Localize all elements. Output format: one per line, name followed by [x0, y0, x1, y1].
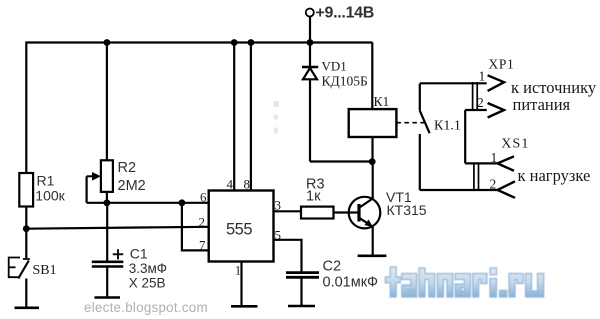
wire XP1 pin2 to XS1 pin1: [464, 110, 466, 163]
diode VD1: [302, 59, 368, 89]
transistor Q1 VT1: [349, 189, 427, 229]
switch contact K1.1: [420, 84, 461, 191]
wire pin6-pin7 link: [182, 203, 209, 251]
node supply junction: [307, 39, 314, 46]
wire relay top lead: [371, 43, 373, 110]
wire pin8: [250, 42, 252, 191]
wire pin1 ground lead: [240, 262, 242, 307]
ground C1: [95, 296, 121, 299]
wire pin5 to C2: [274, 240, 302, 272]
potentiometer R2: [87, 160, 146, 203]
wire C1 top lead: [106, 203, 108, 261]
ground SB1: [15, 306, 40, 309]
ground C2: [288, 305, 315, 308]
wire dash mechanical link: [396, 122, 424, 124]
wire R2 bottom lead: [106, 192, 108, 203]
wire C1 bottom lead: [106, 268, 108, 298]
wire bottom link to collector: [310, 160, 373, 162]
node pin6 link junction: [179, 199, 186, 206]
resistor R1: [19, 173, 65, 207]
wire R1 bottom lead: [25, 207, 27, 259]
ground 555 pin1: [231, 305, 258, 308]
connector XS1: [420, 137, 590, 198]
wire R2 top lead: [106, 42, 108, 161]
capacitor C2: [286, 259, 378, 291]
pushbutton SB1: [9, 258, 57, 279]
capacitor C1: [92, 245, 167, 290]
wire threshold (pins 6): [87, 202, 209, 204]
wire pin3 to R3: [274, 210, 302, 212]
wire pin4: [233, 42, 235, 191]
wire supply drop: [309, 17, 311, 68]
node pin4 rail junction: [231, 39, 238, 46]
wire SB1 bottom lead: [25, 279, 27, 308]
op-amp U1 timer 555: [209, 191, 274, 262]
wire R1 top lead: [25, 42, 27, 174]
node R1/SB1/pin2 junction: [23, 225, 30, 232]
relay K1: [349, 94, 397, 137]
scan artifact marks: [274, 101, 280, 134]
wire relay bottom lead: [371, 137, 373, 162]
wire VD1 anode down: [309, 80, 311, 162]
wire C2 bottom lead: [300, 279, 302, 306]
wire trigger (pin 2): [26, 227, 209, 229]
resistor R3: [301, 177, 334, 219]
node R2 top rail junction: [104, 39, 111, 46]
wire collector: [372, 162, 374, 199]
ground VT1 emitter: [358, 255, 387, 258]
node collector junction: [369, 158, 376, 165]
wire top rail +V: [26, 41, 373, 43]
node pin8 rail junction: [248, 39, 255, 46]
power terminal +9...14V: [306, 5, 374, 22]
watermark electe.blogspot.com: [84, 300, 208, 315]
node R2/C1 junction: [104, 199, 111, 206]
connector XP1: [420, 57, 597, 118]
wire emitter: [372, 227, 374, 255]
wire R3 to base: [334, 211, 358, 213]
